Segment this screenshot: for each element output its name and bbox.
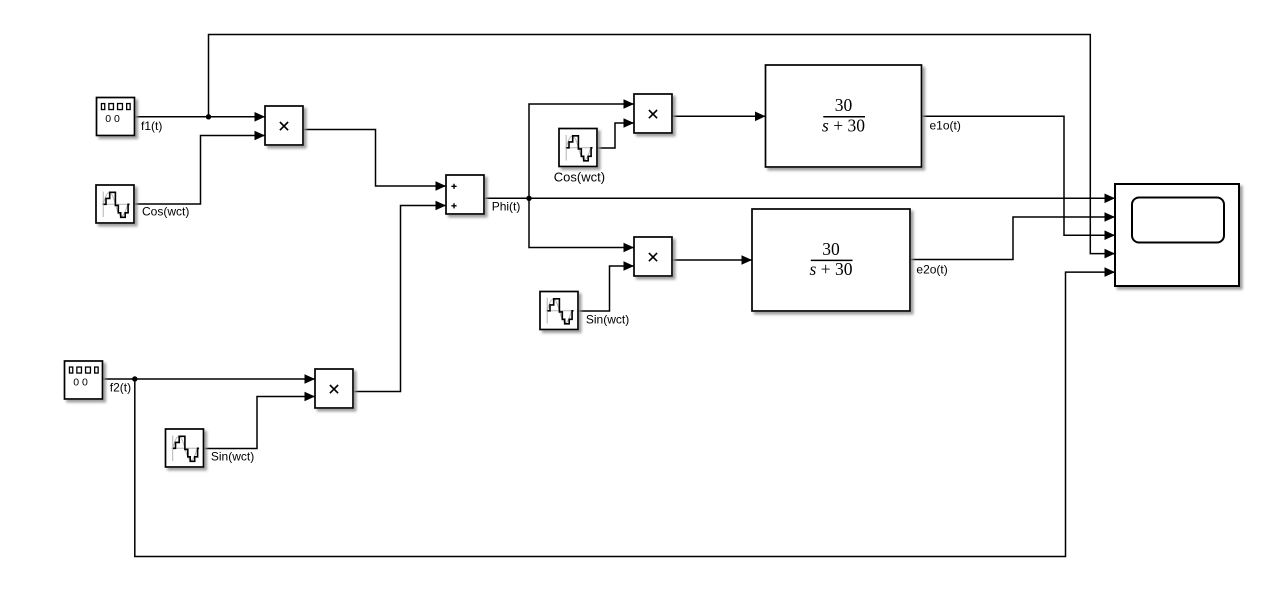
source block f2(t) (signal editor)	[65, 361, 132, 399]
wire Sum output Phi(t) to Scope input 1	[484, 197, 1115, 199]
svg-text:Sin(wct): Sin(wct)	[211, 450, 254, 464]
wire Product1 output to Sum input 1	[303, 130, 446, 187]
svg-text:e1o(t): e1o(t)	[930, 119, 961, 133]
wire Sin(wct) modulator carrier to Product2 input 2	[204, 397, 315, 449]
source block Sin(wct) modulator carrier	[166, 429, 255, 467]
source block Cos(wct) demodulator carrier	[554, 129, 605, 185]
svg-text:Phi(t): Phi(t)	[492, 199, 521, 213]
svg-text:s + 30: s + 30	[822, 115, 865, 135]
wire Transfer Fcn1 output e1o(t) to Scope input 3	[922, 116, 1116, 235]
transfer function block Transfer Fcn1 30/(s+30)	[766, 65, 961, 167]
sum block Add (Phi(t) = in1 + in2)	[446, 175, 520, 214]
wire f2(t) output to Product2 input 1	[103, 378, 316, 380]
wire Transfer Fcn2 output e2o(t) to Scope input 2	[910, 217, 1115, 260]
wire Cos(wct) carrier to Product1 input 2	[134, 136, 265, 205]
scope block Scope (5 inputs)	[1115, 184, 1239, 286]
wire Cos(wct) demod carrier to Product3 input 2	[597, 123, 634, 148]
wire f1(t) junction up and across top to Scope input 4	[209, 35, 1116, 254]
product block Product3 (Phi x Cos)	[634, 94, 672, 133]
svg-text:Cos(wct): Cos(wct)	[142, 205, 189, 219]
svg-text:Sin(wct): Sin(wct)	[586, 313, 629, 327]
wire Sin(wct) demod carrier to Product4 input 2	[579, 266, 634, 311]
wire Product4 output to Transfer Fcn2 input	[672, 259, 752, 261]
svg-text:30: 30	[822, 239, 840, 259]
wire Product2 output to Sum input 2	[353, 206, 446, 392]
source block f1(t) (signal editor)	[97, 98, 163, 136]
svg-text:30: 30	[835, 95, 853, 115]
source block Cos(wct) carrier	[96, 185, 189, 223]
wire Product3 output to Transfer Fcn1 input	[672, 115, 766, 117]
wire f1(t) output to Product1 input 1	[135, 116, 265, 118]
svg-text:f2(t): f2(t)	[110, 381, 131, 395]
product block Product4 (Phi x Sin)	[634, 237, 672, 276]
source block Sin(wct) demodulator carrier	[540, 292, 629, 330]
svg-text:f1(t): f1(t)	[141, 119, 162, 133]
wire Phi(t) junction down to Product4 input 1	[529, 198, 634, 247]
transfer function block Transfer Fcn2 30/(s+30)	[752, 209, 948, 311]
svg-text:s + 30: s + 30	[810, 259, 853, 279]
product block Product2 (f2 x Sin)	[315, 369, 353, 408]
wire f2(t) junction down and across bottom to Scope input 5	[135, 272, 1115, 556]
svg-text:Cos(wct): Cos(wct)	[554, 170, 605, 185]
product block Product1 (f1 x Cos)	[265, 106, 303, 145]
wire Phi(t) junction up to Product3 input 1	[529, 104, 634, 198]
svg-text:e2o(t): e2o(t)	[916, 262, 947, 276]
